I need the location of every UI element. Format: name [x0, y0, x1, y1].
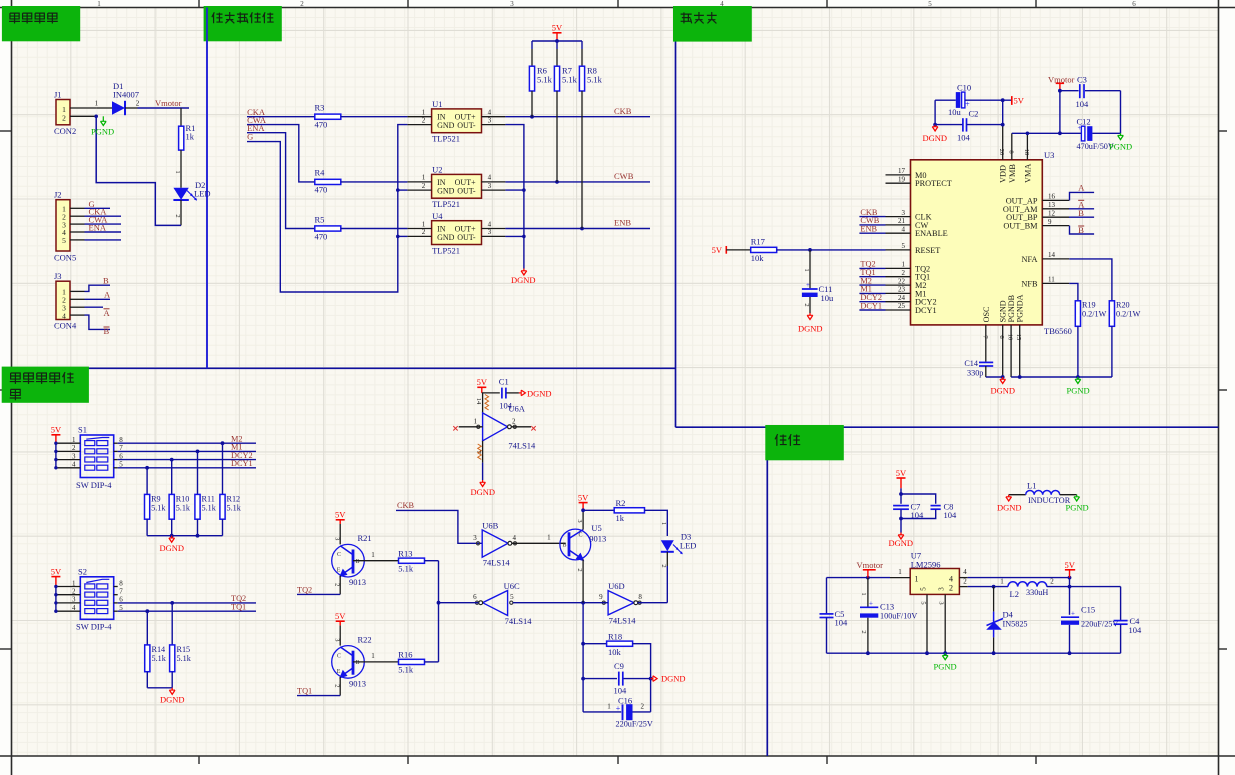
- svg-text:+: +: [869, 600, 873, 608]
- svg-text:12: 12: [1048, 209, 1056, 217]
- svg-text:8: 8: [1007, 150, 1014, 153]
- svg-text:5V: 5V: [1065, 560, 1076, 570]
- svg-text:10k: 10k: [751, 253, 765, 263]
- svg-text:5.1k: 5.1k: [537, 75, 553, 85]
- svg-text:4: 4: [949, 575, 953, 584]
- svg-text:3: 3: [334, 537, 341, 540]
- svg-text:5.1k: 5.1k: [176, 504, 191, 513]
- svg-text:10: 10: [1007, 334, 1014, 341]
- svg-text:5.1k: 5.1k: [562, 75, 578, 85]
- svg-text:2: 2: [72, 588, 76, 596]
- svg-text:PGND: PGND: [934, 662, 957, 672]
- svg-text:ENB: ENB: [614, 218, 631, 228]
- svg-text:C13: C13: [880, 602, 894, 612]
- svg-text:U4: U4: [432, 211, 443, 221]
- svg-text:9013: 9013: [349, 678, 366, 688]
- svg-text:SW DIP-4: SW DIP-4: [76, 622, 112, 632]
- svg-text:19: 19: [898, 175, 906, 183]
- svg-text:2: 2: [422, 116, 426, 124]
- svg-text:5.1k: 5.1k: [398, 665, 414, 675]
- svg-text:1: 1: [607, 703, 611, 711]
- svg-text:1: 1: [72, 436, 76, 444]
- svg-text:C2: C2: [969, 109, 979, 119]
- svg-text:OUT+: OUT+: [455, 178, 476, 187]
- svg-text:U6A: U6A: [508, 404, 525, 414]
- svg-text:5V: 5V: [712, 245, 723, 255]
- svg-text:RESET: RESET: [915, 246, 940, 255]
- svg-text:C: C: [337, 552, 341, 558]
- svg-text:5V: 5V: [477, 377, 488, 387]
- svg-text:ENABLE: ENABLE: [915, 229, 948, 238]
- svg-text:B: B: [356, 660, 360, 666]
- svg-text:C: C: [579, 533, 583, 539]
- svg-text:470: 470: [315, 120, 328, 130]
- svg-text:LED: LED: [680, 541, 697, 551]
- svg-text:R22: R22: [358, 634, 372, 644]
- svg-text:21: 21: [898, 217, 906, 225]
- svg-text:100uF/10V: 100uF/10V: [880, 612, 917, 621]
- svg-text:4: 4: [902, 225, 906, 233]
- svg-text:R21: R21: [358, 533, 372, 543]
- svg-text:TQ1: TQ1: [231, 603, 246, 612]
- svg-text:8: 8: [119, 579, 123, 587]
- svg-text:104: 104: [1129, 625, 1143, 635]
- svg-text:R9: R9: [151, 495, 161, 504]
- svg-text:DGND: DGND: [923, 133, 948, 143]
- svg-text:R19: R19: [1082, 301, 1096, 310]
- svg-text:R18: R18: [608, 632, 622, 642]
- svg-text:U2: U2: [432, 165, 442, 175]
- svg-text:2: 2: [136, 99, 140, 107]
- svg-text:+: +: [806, 281, 810, 289]
- svg-text:C10: C10: [957, 83, 971, 93]
- svg-text:5.1k: 5.1k: [152, 654, 167, 663]
- svg-text:5V: 5V: [1014, 96, 1025, 106]
- svg-text:1: 1: [547, 534, 551, 542]
- svg-text:0.2/1W: 0.2/1W: [1082, 310, 1107, 319]
- svg-text:5V: 5V: [335, 611, 346, 621]
- svg-text:5V: 5V: [552, 23, 563, 33]
- svg-text:2: 2: [860, 630, 867, 633]
- svg-text:CON2: CON2: [54, 126, 76, 136]
- svg-text:4: 4: [72, 461, 76, 469]
- svg-text:CKB: CKB: [397, 501, 415, 510]
- svg-text:S1: S1: [78, 425, 87, 435]
- svg-text:E: E: [337, 669, 341, 675]
- svg-text:3: 3: [576, 519, 583, 522]
- svg-text:3: 3: [334, 638, 341, 641]
- svg-text:3: 3: [488, 228, 492, 236]
- svg-text:DGND: DGND: [527, 389, 552, 399]
- svg-text:5.1k: 5.1k: [202, 504, 217, 513]
- svg-text:PGND: PGND: [1109, 142, 1132, 152]
- svg-text:2: 2: [641, 703, 645, 711]
- svg-text:5.1k: 5.1k: [151, 504, 166, 513]
- svg-text:C3: C3: [1077, 75, 1087, 85]
- svg-text:1: 1: [422, 220, 426, 228]
- svg-text:5.1k: 5.1k: [177, 654, 192, 663]
- svg-text:3: 3: [938, 601, 945, 604]
- svg-text:4: 4: [513, 534, 517, 542]
- svg-text:11: 11: [1048, 276, 1055, 284]
- svg-text:2: 2: [512, 417, 516, 425]
- svg-text:DGND: DGND: [160, 543, 185, 553]
- svg-text:1: 1: [97, 0, 101, 8]
- svg-text:4: 4: [488, 220, 492, 228]
- svg-text:16: 16: [1048, 193, 1056, 201]
- svg-text:PGND: PGND: [1067, 386, 1090, 396]
- svg-text:R13: R13: [398, 549, 412, 559]
- svg-text:C9: C9: [614, 661, 624, 671]
- svg-text:1k: 1k: [186, 132, 195, 142]
- svg-text:IN5825: IN5825: [1003, 620, 1028, 629]
- svg-text:14: 14: [1048, 251, 1056, 259]
- svg-text:2: 2: [660, 564, 667, 567]
- svg-text:4: 4: [72, 604, 76, 612]
- svg-text:C: C: [337, 653, 341, 659]
- svg-text:5: 5: [920, 601, 927, 604]
- svg-text:U5: U5: [591, 523, 601, 533]
- svg-text:9: 9: [599, 593, 603, 601]
- svg-text:R14: R14: [152, 645, 166, 654]
- svg-text:B: B: [563, 543, 567, 549]
- svg-text:DGND: DGND: [889, 538, 914, 548]
- svg-text:E: E: [337, 568, 341, 574]
- svg-text:2: 2: [1050, 578, 1054, 586]
- svg-text:U6C: U6C: [504, 581, 520, 591]
- svg-text:15: 15: [1015, 334, 1022, 341]
- svg-text:2: 2: [902, 269, 906, 277]
- svg-text:R12: R12: [227, 495, 241, 504]
- svg-text:17: 17: [898, 167, 906, 175]
- svg-text:5: 5: [510, 593, 514, 601]
- svg-text:DCY1: DCY1: [231, 459, 253, 468]
- svg-text:CON5: CON5: [54, 253, 76, 263]
- svg-text:R16: R16: [398, 650, 412, 660]
- svg-text:2: 2: [334, 684, 341, 687]
- svg-text:VMB: VMB: [1008, 164, 1017, 183]
- svg-text:4: 4: [488, 174, 492, 182]
- svg-text:25: 25: [898, 302, 906, 310]
- svg-text:22: 22: [898, 277, 906, 285]
- svg-text:2: 2: [334, 583, 341, 586]
- svg-text:Vmotor: Vmotor: [857, 560, 884, 570]
- svg-text:104: 104: [1076, 99, 1090, 109]
- svg-text:DGND: DGND: [471, 487, 496, 497]
- svg-text:U3: U3: [1044, 150, 1054, 160]
- svg-text:TB6560: TB6560: [1044, 326, 1072, 336]
- svg-text:R20: R20: [1116, 301, 1130, 310]
- svg-text:C16: C16: [618, 695, 632, 705]
- svg-text:LM2596: LM2596: [911, 559, 941, 569]
- svg-text:J3: J3: [54, 271, 62, 281]
- svg-text:5: 5: [902, 242, 906, 250]
- svg-text:20: 20: [998, 149, 1005, 156]
- svg-text:R4: R4: [315, 168, 326, 178]
- svg-text:C14: C14: [964, 359, 978, 368]
- svg-text:1: 1: [860, 592, 867, 595]
- svg-text:Vmotor: Vmotor: [155, 98, 182, 108]
- svg-text:5V: 5V: [896, 468, 907, 478]
- svg-text:SW DIP-4: SW DIP-4: [76, 480, 112, 490]
- svg-text:OUT-: OUT-: [457, 233, 476, 242]
- svg-text:OSC: OSC: [982, 307, 991, 323]
- svg-text:CON4: CON4: [54, 321, 77, 331]
- svg-text:DGND: DGND: [997, 503, 1022, 513]
- svg-text:L1: L1: [1027, 481, 1036, 491]
- svg-text:DGND: DGND: [661, 674, 686, 684]
- svg-text:330uH: 330uH: [1026, 588, 1048, 597]
- svg-text:B: B: [103, 275, 109, 285]
- svg-text:NFB: NFB: [1021, 279, 1038, 288]
- svg-text:220uF/25V: 220uF/25V: [1081, 620, 1118, 629]
- svg-text:NFA: NFA: [1022, 255, 1038, 264]
- svg-text:DGND: DGND: [160, 695, 185, 705]
- svg-text:+: +: [1071, 610, 1075, 618]
- svg-text:2: 2: [963, 578, 967, 586]
- svg-text:1: 1: [72, 579, 76, 587]
- svg-text:TQ2: TQ2: [297, 585, 312, 594]
- svg-text:DCY1: DCY1: [860, 301, 882, 310]
- svg-text:IN4007: IN4007: [113, 90, 139, 100]
- svg-text:1: 1: [1000, 578, 1004, 586]
- svg-text:1: 1: [803, 268, 810, 271]
- svg-text:74LS14: 74LS14: [609, 615, 637, 625]
- svg-text:7: 7: [119, 588, 123, 596]
- svg-text:74LS14: 74LS14: [483, 558, 511, 568]
- svg-text:6: 6: [473, 593, 477, 601]
- svg-text:74LS14: 74LS14: [508, 441, 536, 451]
- svg-text:PROTECT: PROTECT: [915, 179, 952, 188]
- svg-text:18: 18: [1023, 149, 1030, 156]
- svg-text:DCY1: DCY1: [915, 306, 937, 315]
- svg-text:2: 2: [174, 214, 181, 217]
- svg-text:3: 3: [72, 596, 76, 604]
- svg-text:U6D: U6D: [608, 581, 625, 591]
- svg-text:470: 470: [315, 185, 328, 195]
- svg-text:1: 1: [174, 170, 181, 173]
- svg-text:R3: R3: [315, 103, 325, 113]
- svg-text:2: 2: [422, 182, 426, 190]
- svg-text:ENB: ENB: [860, 225, 877, 234]
- svg-text:9: 9: [1048, 218, 1052, 226]
- svg-text:A: A: [1078, 183, 1085, 193]
- svg-text:1: 1: [95, 99, 99, 107]
- svg-text:OUT-: OUT-: [457, 187, 476, 196]
- svg-text:CWB: CWB: [614, 171, 634, 181]
- svg-text:0.2/1W: 0.2/1W: [1116, 310, 1141, 319]
- svg-text:R2: R2: [616, 498, 626, 508]
- svg-text:1: 1: [371, 551, 375, 559]
- svg-text:5V: 5V: [335, 510, 346, 520]
- svg-text:10u: 10u: [821, 293, 835, 303]
- svg-text:3: 3: [72, 452, 76, 460]
- svg-text:GND: GND: [437, 121, 455, 130]
- svg-text:ENA: ENA: [89, 223, 107, 233]
- svg-text:9013: 9013: [589, 534, 606, 544]
- svg-text:CKB: CKB: [614, 106, 632, 116]
- svg-text:1: 1: [915, 575, 919, 584]
- svg-text:5.1k: 5.1k: [587, 75, 603, 85]
- svg-text:1: 1: [660, 522, 667, 525]
- svg-text:2: 2: [576, 568, 583, 571]
- svg-text:2: 2: [300, 0, 304, 8]
- svg-text:3: 3: [510, 0, 514, 8]
- svg-text:220uF/25V: 220uF/25V: [616, 720, 653, 729]
- svg-text:OUT_BM: OUT_BM: [1003, 222, 1038, 231]
- svg-text:1: 1: [371, 652, 375, 660]
- svg-text:A: A: [104, 289, 111, 299]
- svg-text:TQ1: TQ1: [297, 687, 312, 696]
- svg-text:13: 13: [1048, 201, 1056, 209]
- svg-text:L2: L2: [1010, 589, 1019, 599]
- svg-text:1: 1: [902, 261, 906, 269]
- svg-text:2: 2: [72, 444, 76, 452]
- svg-text:4: 4: [488, 109, 492, 117]
- svg-text:TLP521: TLP521: [432, 246, 460, 256]
- svg-text:470: 470: [315, 231, 328, 241]
- svg-text:5: 5: [920, 587, 928, 591]
- svg-text:IN: IN: [437, 178, 446, 187]
- svg-text:R17: R17: [751, 237, 765, 247]
- svg-text:9013: 9013: [349, 577, 366, 587]
- svg-text:INDUCTOR: INDUCTOR: [1028, 496, 1071, 505]
- svg-text:S2: S2: [78, 566, 87, 576]
- svg-text:74LS14: 74LS14: [505, 616, 533, 626]
- svg-text:5: 5: [928, 0, 932, 8]
- svg-text:G: G: [247, 132, 253, 142]
- svg-text:R5: R5: [315, 214, 325, 224]
- svg-text:GND: GND: [437, 187, 455, 196]
- svg-text:3: 3: [938, 587, 946, 591]
- svg-text:LED: LED: [194, 189, 211, 199]
- svg-text:104: 104: [944, 510, 958, 520]
- svg-text:14: 14: [475, 398, 482, 405]
- svg-text:104: 104: [957, 133, 971, 143]
- svg-text:R15: R15: [177, 645, 191, 654]
- svg-text:6: 6: [1132, 0, 1136, 8]
- svg-text:5: 5: [62, 236, 66, 245]
- svg-text:OUT-: OUT-: [457, 121, 476, 130]
- svg-text:VMA: VMA: [1023, 164, 1032, 183]
- svg-text:4: 4: [62, 311, 66, 320]
- svg-text:5V: 5V: [578, 492, 589, 502]
- svg-text:U1: U1: [432, 99, 442, 109]
- svg-text:2: 2: [422, 228, 426, 236]
- svg-text:2: 2: [949, 584, 953, 593]
- svg-text:D4: D4: [1003, 610, 1014, 620]
- svg-text:8: 8: [638, 593, 642, 601]
- svg-text:4: 4: [963, 568, 967, 576]
- svg-text:C12: C12: [1077, 116, 1091, 126]
- svg-text:R11: R11: [202, 495, 215, 504]
- svg-text:PGNDA: PGNDA: [1016, 294, 1025, 322]
- svg-text:23: 23: [898, 286, 906, 294]
- svg-text:VDD: VDD: [999, 165, 1008, 183]
- svg-text:1: 1: [474, 417, 478, 425]
- svg-text:B: B: [356, 559, 360, 565]
- svg-text:1: 1: [422, 109, 426, 117]
- svg-text:5.1k: 5.1k: [398, 564, 414, 574]
- svg-text:TLP521: TLP521: [432, 199, 460, 209]
- svg-text:2: 2: [803, 303, 810, 306]
- svg-text:J2: J2: [54, 190, 62, 200]
- svg-text:U6B: U6B: [482, 520, 498, 530]
- svg-text:DGND: DGND: [991, 386, 1016, 396]
- svg-text:TLP521: TLP521: [432, 134, 460, 144]
- svg-text:10k: 10k: [608, 647, 622, 657]
- svg-text:B: B: [1078, 208, 1084, 218]
- svg-text:DGND: DGND: [798, 324, 823, 334]
- svg-text:330p: 330p: [967, 369, 983, 378]
- svg-text:5V: 5V: [51, 566, 62, 576]
- svg-text:J1: J1: [54, 90, 62, 100]
- svg-text:104: 104: [835, 618, 849, 628]
- svg-text:2: 2: [62, 114, 66, 123]
- svg-text:DGND: DGND: [511, 275, 536, 285]
- svg-text:24: 24: [898, 294, 906, 302]
- svg-text:1k: 1k: [616, 513, 625, 523]
- svg-text:3: 3: [488, 116, 492, 124]
- svg-text:PGND: PGND: [91, 127, 114, 137]
- svg-text:1: 1: [898, 568, 902, 576]
- svg-text:1: 1: [422, 174, 426, 182]
- svg-text:3: 3: [473, 534, 477, 542]
- svg-text:C1: C1: [499, 377, 509, 387]
- svg-text:R10: R10: [176, 495, 190, 504]
- svg-text:5V: 5V: [51, 425, 62, 435]
- svg-text:5.1k: 5.1k: [227, 504, 242, 513]
- svg-text:10u: 10u: [948, 107, 962, 117]
- svg-text:GND: GND: [437, 233, 455, 242]
- svg-text:3: 3: [902, 209, 906, 217]
- svg-text:104: 104: [614, 686, 628, 696]
- svg-text:3: 3: [488, 182, 492, 190]
- svg-text:C15: C15: [1081, 605, 1095, 615]
